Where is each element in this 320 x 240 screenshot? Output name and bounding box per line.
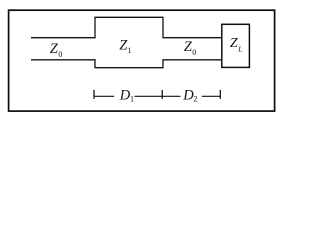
wire: bottom edge of Z0 / Z1 / Z0 microstrip profile	[31, 60, 222, 68]
svg-text:D: D	[182, 88, 194, 104]
label Z0 (left line)	[50, 41, 63, 59]
svg-text:L: L	[237, 44, 242, 53]
load box ZL	[222, 24, 250, 67]
dimension tick right (at x=220)	[219, 90, 221, 99]
label ZL (load)	[230, 36, 242, 53]
dimension line segment between D1 and D2	[135, 95, 181, 97]
dimension line D1 left segment	[94, 95, 114, 97]
svg-text:0: 0	[192, 48, 196, 57]
dimension tick left (at x=94)	[93, 90, 95, 99]
svg-text:1: 1	[128, 46, 132, 55]
label D1	[119, 88, 134, 104]
dimension tick middle (at x=162)	[161, 90, 163, 99]
label D2	[182, 88, 197, 104]
svg-text:1: 1	[130, 94, 134, 103]
svg-text:D: D	[119, 88, 131, 104]
wire: top edge of Z0 / Z1 / Z0 microstrip profile	[31, 17, 222, 37]
dimension line D2 right segment	[202, 95, 221, 97]
svg-text:Z: Z	[230, 36, 238, 51]
svg-text:2: 2	[193, 94, 197, 103]
label Z0 (right line)	[184, 39, 196, 57]
label Z1 (middle section)	[119, 38, 131, 55]
svg-text:0: 0	[58, 50, 62, 59]
